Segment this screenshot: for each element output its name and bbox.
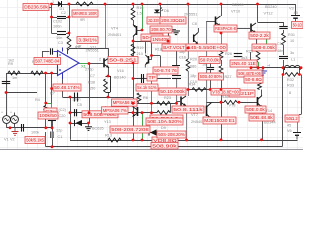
wire src row y127: [7, 127, 53, 129]
wire L node L: [283, 68, 285, 75]
svg-text:C7: C7: [90, 74, 95, 78]
wire y22 right link: [258, 22, 284, 24]
wire x283.5 chain2: [283, 45, 285, 55]
capacitor C17: [207, 64, 214, 89]
label X1 green: [81, 64, 87, 69]
box tp1: [147, 74, 157, 81]
label R16v: [137, 12, 142, 16]
transistor VT10: [216, 16, 221, 26]
box diodes: [146, 118, 183, 125]
ground G3 blue: [259, 68, 267, 75]
capacitor C13: [51, 132, 53, 139]
box R4v: [38, 112, 58, 119]
box C203: [44, 108, 57, 115]
box g2: [151, 36, 170, 43]
wire x89 col: [89, 64, 91, 124]
box r20t: [199, 57, 220, 64]
transistor VT1: [104, 58, 109, 68]
wire x250 col: [250, 52, 252, 68]
label V2: [10, 138, 15, 142]
ground G1: [172, 31, 180, 35]
capacitor C4: [75, 93, 78, 102]
label C2: [61, 11, 66, 15]
label n1: [52, 0, 54, 4]
svg-text:50B.48.8k: 50B.48.8k: [250, 115, 274, 120]
svg-text:507.748E-04: 507.748E-04: [35, 59, 60, 64]
box mpsa2: [102, 107, 129, 114]
wire x188 col top: [188, 4, 190, 59]
resistor R29: [256, 50, 260, 62]
label V1: [4, 138, 9, 142]
label C8: [192, 22, 197, 26]
svg-text:VT8 18.8E+00: VT8 18.8E+00: [212, 89, 239, 94]
label R19: [137, 46, 144, 50]
ground G2: [85, 123, 92, 130]
box vt12b: [252, 44, 276, 51]
svg-text:150: 150: [89, 87, 95, 91]
capacitor C16: [172, 50, 181, 70]
wire input left drop: [6, 73, 8, 116]
svg-text:+: +: [1, 111, 3, 115]
svg-text:VT4: VT4: [111, 27, 118, 31]
label 100n b: [72, 98, 80, 102]
wire zobel col: [106, 92, 111, 97]
label VT8: [229, 104, 236, 108]
svg-text:1.5: 1.5: [137, 12, 142, 16]
transistor VT4: [133, 25, 142, 37]
wire x176 caps col: [176, 79, 178, 104]
box bc635: [110, 126, 150, 133]
svg-text:208.33ΩΩ4: 208.33ΩΩ4: [161, 18, 185, 23]
capacitor C6: [51, 48, 53, 54]
wire x221 low2: [221, 76, 223, 102]
svg-text:VT7: VT7: [191, 113, 198, 117]
label BC635: [92, 127, 104, 131]
wire x221 bus: [221, 103, 223, 140]
svg-text:V3: V3: [289, 7, 294, 11]
box VT4r: [141, 34, 163, 41]
wire diode row y132.5: [142, 132, 162, 134]
svg-text:BAT.VOLT: BAT.VOLT: [163, 45, 185, 50]
svg-text:R8: R8: [75, 46, 80, 50]
ground red src: [12, 128, 19, 136]
box tp2: [199, 73, 224, 80]
svg-text:50Ω.2: 50Ω.2: [286, 116, 298, 121]
svg-text:BD139: BD139: [232, 3, 244, 7]
label R38: [88, 81, 95, 85]
label p2: [99, 58, 101, 62]
wire gnd1 jog: [168, 29, 170, 41]
label C7: [90, 74, 95, 78]
wire vt12 emitter: [256, 33, 258, 50]
svg-text:R20: R20: [190, 58, 197, 62]
label 680: [190, 65, 196, 69]
node dot y92.5: [5, 91, 8, 94]
label C10: [190, 80, 197, 84]
label 48n: [277, 49, 283, 53]
wire fb col x42: [42, 52, 44, 61]
wire x51 cap col: [52, 115, 54, 132]
svg-text:R16: R16: [137, 6, 144, 10]
svg-text:RESPACK-8: RESPACK-8: [215, 26, 236, 31]
label R4: [35, 98, 40, 102]
svg-text:C20: C20: [59, 114, 66, 118]
capacitor Cin: [22, 124, 24, 132]
resistor R8: [67, 36, 71, 50]
label R33: [287, 84, 294, 88]
wire y103 out row: [207, 102, 258, 104]
wire R16-VT4 link: [133, 20, 135, 41]
battery V3: [291, 16, 300, 19]
capacitor C14: [279, 57, 288, 59]
wire x259.5 drop: [257, 4, 259, 22]
label VT11: [248, 107, 257, 111]
wire vt1 emitter drop: [108, 67, 110, 76]
svg-text:270p: 270p: [85, 68, 93, 72]
label R3: [32, 60, 37, 64]
label 2N5401a: [108, 33, 121, 37]
svg-text:18p: 18p: [190, 74, 196, 78]
label 270p: [85, 68, 93, 72]
wire cap2 left stub: [49, 8, 57, 18]
label 18pb: [179, 50, 185, 54]
battery V6: [293, 133, 301, 140]
svg-text:3u3: 3u3: [241, 56, 247, 60]
svg-text:100n: 100n: [72, 98, 80, 102]
label BD139: [232, 3, 244, 7]
label 10: [290, 39, 294, 43]
label D9: [161, 126, 166, 130]
wire bus2: [46, 146, 282, 148]
wire vt1 collector row: [69, 48, 109, 50]
box g1: [150, 26, 172, 33]
resistor R2: [8, 71, 20, 75]
svg-text:Y13: Y13: [104, 120, 111, 124]
inductor L1: [285, 65, 301, 70]
label R27: [225, 75, 232, 79]
border bottom: [0, 149, 303, 151]
label 3u: [290, 51, 294, 55]
resistor R32: [285, 73, 299, 77]
svg-text:C14: C14: [277, 42, 284, 46]
label R20: [190, 58, 197, 62]
wire x45 col low: [45, 114, 47, 147]
box c11: [136, 84, 158, 91]
svg-text:502-2.2k: 502-2.2k: [250, 33, 270, 38]
svg-text:48n: 48n: [277, 49, 283, 53]
wire cap3 corner: [51, 33, 57, 35]
wire bus1: [70, 140, 298, 142]
resistor R19: [131, 44, 135, 56]
transistor VT12: [237, 23, 256, 33]
wire y78.5 row: [133, 78, 171, 80]
svg-text:V1: V1: [4, 138, 9, 142]
wire x283.5 chain3: [283, 60, 285, 74]
resistor R26: [219, 50, 223, 61]
wire opamp pwr bot: [62, 79, 64, 97]
box mje: [203, 117, 236, 124]
label R32: [287, 78, 294, 82]
label R8: [75, 46, 80, 50]
wire y113 green: [94, 112, 110, 114]
wire x69 col: [69, 4, 71, 36]
svg-text:C3: C3: [58, 41, 63, 45]
resistor R27: [219, 66, 223, 76]
svg-text:1m: 1m: [12, 76, 17, 80]
svg-text:508.90k: 508.90k: [152, 143, 178, 148]
label M blue: [245, 61, 248, 65]
wire x133 col top: [133, 4, 135, 8]
label 100k: [31, 131, 39, 135]
label 1m: [12, 76, 17, 80]
wire y103.5 row: [133, 103, 177, 105]
label 45b: [287, 124, 291, 128]
diode VD1: [75, 120, 83, 126]
label V3: [289, 7, 294, 11]
svg-text:50.10.000k: 50.10.000k: [160, 89, 186, 94]
label R16: [137, 6, 144, 10]
label BD140: [114, 76, 126, 80]
box row44b: [186, 44, 227, 51]
svg-text:R31: R31: [288, 33, 295, 37]
svg-text:R34: R34: [189, 83, 196, 87]
wire y112 row2: [152, 74, 171, 113]
label R7: [50, 92, 55, 96]
svg-text:545-5.550E+00: 545-5.550E+00: [187, 45, 226, 50]
resistor R22: [157, 111, 170, 115]
svg-text:50E.0.0k: 50E.0.0k: [246, 107, 266, 112]
wire cap2 right stub: [66, 17, 69, 19]
label out blue: [267, 64, 271, 68]
transistor VT7: [207, 103, 212, 125]
transistor VT5 bar: [133, 107, 138, 117]
svg-text:D6: D6: [164, 9, 169, 13]
capacitor C3: [57, 32, 66, 35]
wire input row y73: [6, 73, 58, 75]
svg-text:MJE15030 E1: MJE15030 E1: [204, 118, 235, 123]
op-amp X1: [58, 48, 80, 80]
label 210: [137, 52, 143, 56]
svg-text:680: 680: [190, 65, 196, 69]
label C203: [59, 114, 66, 118]
label 18p: [190, 74, 196, 78]
svg-text:Y11: Y11: [90, 46, 96, 50]
label C13: [58, 135, 63, 139]
box y131: [157, 131, 186, 138]
svg-text:45: 45: [294, 11, 298, 15]
capacitor C10: [172, 76, 181, 79]
svg-text:2Ω.330: 2Ω.330: [148, 18, 159, 23]
box c15b: [230, 60, 257, 67]
label R59: [143, 96, 148, 100]
wire y92.5 stub: [6, 92, 37, 94]
svg-text:MPSA06 7%: MPSA06 7%: [103, 108, 127, 113]
wire out to base: [89, 63, 104, 65]
box vt10b: [214, 25, 237, 32]
svg-text:2N5551: 2N5551: [184, 13, 197, 17]
resistor R4: [44, 106, 48, 115]
box green113: [82, 111, 118, 118]
svg-text:R27: R27: [225, 75, 232, 79]
wire gnd1 stub: [168, 29, 176, 31]
svg-text:BD240: BD240: [265, 5, 277, 9]
box vt8b: [229, 90, 255, 97]
svg-text:5x.1k 51%: 5x.1k 51%: [137, 85, 157, 90]
resistor R16: [131, 8, 135, 20]
label C5: [77, 103, 82, 107]
label 2N5401b: [191, 120, 204, 124]
label R34: [189, 83, 196, 87]
capacitor C203: [48, 119, 56, 121]
label 1ub: [156, 73, 160, 77]
svg-text:X1: X1: [81, 64, 87, 69]
wire L node R: [299, 68, 301, 75]
svg-text:R7: R7: [50, 92, 55, 96]
svg-text:50-1Ω: 50-1Ω: [293, 23, 302, 28]
transistor VT2: [145, 55, 148, 68]
box mpsa1: [112, 99, 138, 106]
box d6a: [147, 17, 160, 24]
svg-text:C102: C102: [53, 20, 62, 24]
svg-text:12p: 12p: [56, 129, 62, 133]
svg-text:508-208.7208: 508-208.7208: [111, 127, 149, 132]
svg-text:R6: R6: [143, 96, 148, 100]
svg-text:C5: C5: [77, 103, 82, 107]
box vt14: [249, 114, 274, 121]
label R36: [222, 95, 229, 99]
wire y113 row: [70, 112, 111, 114]
box vd8: [152, 137, 178, 144]
box y115: [150, 115, 183, 122]
box c8l: [153, 67, 178, 74]
capacitor C16: [279, 22, 287, 29]
label VT12: [264, 12, 273, 16]
label R31: [288, 33, 295, 37]
wire vt9 col: [186, 106, 188, 140]
transistor VT13: [258, 96, 263, 108]
wire bus2 right up: [282, 75, 284, 147]
label VD7: [104, 120, 111, 124]
svg-text:10n: 10n: [56, 36, 62, 40]
label 10n: [56, 36, 62, 40]
svg-text:R26: R26: [225, 52, 232, 56]
resistor R38: [104, 79, 108, 92]
wire cap3 right: [66, 33, 69, 35]
diode D6: [154, 8, 163, 13]
wire vt2 net: [146, 41, 161, 68]
box r37: [245, 106, 266, 113]
box vt9: [172, 106, 204, 113]
label VT7: [191, 113, 198, 117]
capacitor C15: [234, 54, 242, 57]
label 12p: [56, 129, 62, 133]
label C3: [58, 41, 63, 45]
wire VT10 base L: [206, 21, 208, 106]
wire y89 row: [188, 89, 229, 91]
wire minus stub: [42, 60, 58, 62]
svg-text:BD140: BD140: [114, 76, 126, 80]
wire opamp out: [79, 63, 89, 65]
svg-text:3u: 3u: [290, 51, 294, 55]
label R2b: [8, 62, 13, 66]
svg-text:V2: V2: [10, 138, 15, 142]
svg-text:R36: R36: [222, 95, 229, 99]
svg-text:50.8.111k: 50.8.111k: [173, 107, 204, 112]
svg-text:9R: 9R: [80, 18, 85, 22]
label C203a: [59, 108, 67, 112]
diode D9: [149, 129, 157, 135]
svg-text:100k: 100k: [31, 131, 39, 135]
svg-text:VT12: VT12: [264, 12, 273, 16]
label D6: [164, 9, 169, 13]
wire green jog v: [51, 103, 53, 108]
transistor VT8b: [194, 28, 199, 44]
label V6: [287, 129, 292, 133]
svg-text:V6: V6: [287, 129, 292, 133]
svg-text:10: 10: [290, 39, 294, 43]
resistor R3: [31, 71, 43, 75]
svg-text:3.3k/1%: 3.3k/1%: [78, 38, 97, 43]
wire green jog h: [46, 103, 52, 105]
capacitor C7: [106, 76, 111, 92]
svg-text:+: +: [10, 111, 12, 115]
svg-text:R32: R32: [287, 78, 294, 82]
svg-text:R13: R13: [105, 134, 112, 138]
svg-text:L1: L1: [291, 58, 295, 62]
wire x262 col: [262, 108, 264, 140]
wire x133 mid: [133, 41, 135, 103]
sine source V2: [10, 111, 18, 128]
svg-text:R9: R9: [8, 62, 13, 66]
svg-text:D9: D9: [161, 126, 166, 130]
resistor R23: [157, 101, 170, 105]
wire x300.5 col: [298, 75, 302, 133]
label 45: [294, 11, 298, 15]
resistor R20: [186, 59, 190, 71]
box b43: [151, 143, 178, 150]
svg-text:50k/5.1k5: 50k/5.1k5: [26, 138, 44, 143]
svg-text:V16: V16: [117, 69, 124, 73]
label VT6: [117, 69, 124, 73]
wire y97 row: [63, 64, 134, 98]
svg-text:50-8.8Ω: 50-8.8Ω: [245, 77, 262, 82]
svg-text:508-8.06k: 508-8.06k: [253, 45, 276, 50]
box minus: [34, 58, 61, 65]
wire VT10 base stub: [207, 21, 216, 23]
wire x160 drop: [160, 4, 162, 17]
svg-text:VT8: VT8: [229, 104, 236, 108]
svg-text:2N5.40 11E: 2N5.40 11E: [231, 61, 256, 66]
capacitor C1: [2, 82, 10, 84]
box r23: [159, 88, 186, 95]
label 150: [89, 87, 95, 91]
label VT4: [111, 27, 118, 31]
wire x133 low: [133, 103, 135, 140]
wire vt13 col: [258, 81, 262, 96]
svg-text:50S-208.20%: 50S-208.20%: [158, 132, 185, 137]
svg-text:C8: C8: [192, 22, 197, 26]
resistor R1: [76, 2, 93, 6]
label VT1: [90, 46, 96, 50]
wire x106.7 col: [106, 4, 109, 58]
svg-text:R38: R38: [88, 81, 95, 85]
label R21: [159, 119, 166, 123]
wire x45 col: [45, 73, 47, 106]
label C16: [179, 56, 186, 60]
box R1: [72, 10, 98, 17]
wire x51 bus drop: [52, 138, 54, 147]
transistor VT6 bar: [105, 107, 110, 117]
